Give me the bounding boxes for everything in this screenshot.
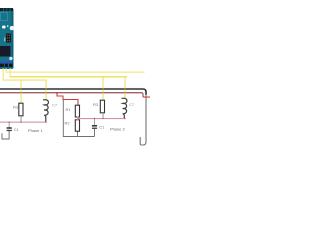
svg-text:Phase 2: Phase 2 — [110, 126, 125, 131]
svg-text:R2: R2 — [65, 121, 71, 126]
junction dot phase1 R3 — [20, 121, 21, 122]
capacitor C1 phase1 — [7, 127, 12, 131]
arduino mounting hole — [10, 26, 14, 30]
arduino light bar — [4, 38, 5, 42]
junction dot phase2 coil — [124, 118, 125, 119]
svg-text:R1: R1 — [66, 107, 72, 112]
junction dot phase1 cap — [8, 121, 9, 122]
wire yellow drop to coil phase1 — [46, 80, 47, 101]
arduino chip block — [0, 46, 11, 57]
wire yellow drop to R3 phase2 — [103, 77, 104, 101]
wire gray phase2 left border — [63, 100, 94, 137]
wire red stub to right edge — [143, 97, 150, 98]
arduino top header strip — [0, 8, 13, 11]
wire gray phase1 ground — [2, 131, 9, 139]
resistor R3 phase1 — [19, 103, 23, 116]
arduino white pad — [7, 25, 9, 27]
arduino bottom header blocks — [0, 64, 13, 67]
arduino lower hole — [9, 57, 12, 60]
svg-text:C1: C1 — [14, 127, 20, 132]
inductor coil phase2 — [122, 98, 127, 118]
arduino bottom edge — [0, 67, 13, 69]
junction dot maroon-red tap — [56, 92, 58, 94]
wire yellow bus A — [6, 72, 145, 73]
wire yellow vertical from pin to bus B — [10, 68, 11, 77]
arduino silkscreen box — [1, 13, 8, 21]
wire gray R2 bottom lead — [77, 131, 79, 137]
junction dot phase1 coil — [45, 121, 46, 122]
svg-text:C7: C7 — [52, 103, 58, 108]
svg-text:C7: C7 — [129, 102, 135, 107]
wire yellow drop to R3 phase1 — [21, 80, 22, 104]
wire black bus top — [0, 89, 146, 95]
wire pink phase2 bottom — [77, 118, 125, 119]
svg-text:C1: C1 — [99, 125, 105, 130]
wire maroon bus — [0, 93, 143, 97]
wire pink R1-R2 link — [77, 117, 78, 121]
wire yellow drop to coil phase2 — [125, 77, 126, 99]
svg-text:R3: R3 — [93, 102, 99, 107]
junction dot phase2 cap — [94, 118, 95, 119]
wire gray phase2 cap lead — [94, 129, 96, 137]
wire gray cap drop phase1 — [8, 122, 11, 128]
wire yellow vertical from pin to bus C — [3, 68, 4, 80]
svg-text:R3: R3 — [13, 104, 19, 109]
arduino blue connector row — [0, 61, 12, 64]
resistor R3 phase2 — [100, 100, 104, 113]
wire red drop from maroon bus — [57, 93, 78, 105]
wire yellow bus C — [3, 80, 48, 81]
wire gray R3b bottom lead — [102, 113, 105, 119]
wire gray R3 bottom lead — [20, 116, 23, 123]
wire pink phase1 bottom — [0, 122, 46, 123]
arduino ICSP header — [6, 34, 11, 43]
wire yellow crossing overlays — [21, 88, 126, 94]
svg-text:Phase 1: Phase 1 — [28, 128, 43, 133]
wire gray cap drop phase2 — [93, 119, 96, 126]
wire yellow bus B — [10, 76, 128, 78]
capacitor C1 phase2 — [92, 125, 97, 129]
wire yellow vertical from pin to bus A — [6, 68, 7, 73]
arduino white crystal — [2, 26, 6, 29]
wire gray right-side return — [140, 94, 146, 145]
resistor R2 phase2 — [75, 120, 79, 131]
inductor coil phase1 — [43, 100, 48, 122]
resistor R1 phase2 — [75, 105, 79, 117]
junction dot phase2 R3 — [102, 118, 103, 119]
arduino board body — [0, 8, 14, 69]
